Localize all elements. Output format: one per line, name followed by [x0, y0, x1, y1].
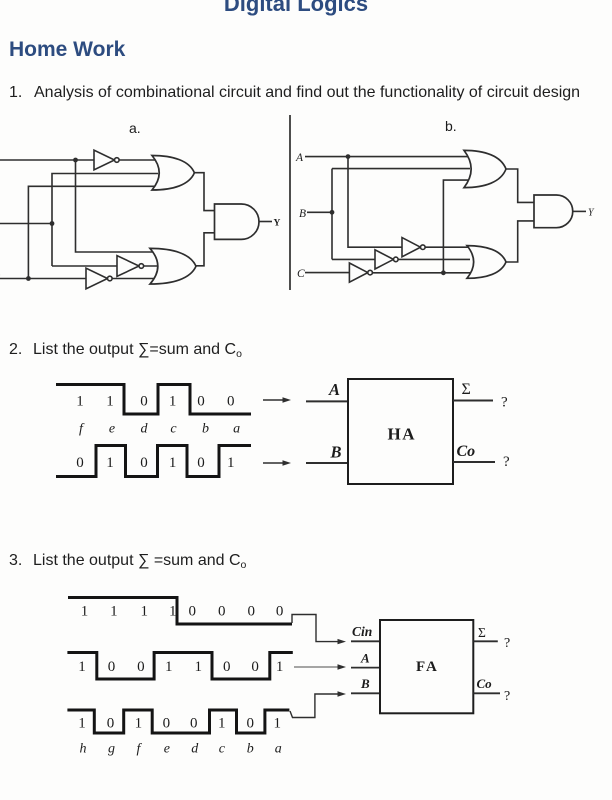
label ? (sum) [504, 636, 510, 651]
svg-text:A: A [328, 380, 340, 399]
inverter U1 (NOT A) [94, 150, 119, 170]
svg-text:0: 0 [197, 394, 205, 410]
svg-text:d: d [191, 742, 199, 757]
svg-text:1: 1 [194, 659, 202, 675]
svg-text:1: 1 [141, 604, 149, 620]
pin label A [360, 651, 370, 666]
svg-text:Co: Co [457, 443, 476, 460]
waveform B (0 1 0 1 0 1) [56, 446, 251, 477]
wire NOT-B output [398, 258, 470, 260]
svg-text:0: 0 [247, 604, 255, 620]
svg-text:1: 1 [227, 455, 235, 471]
arrow to HA input A [263, 397, 291, 402]
wire A down to inverter chain [348, 157, 404, 248]
wire B up branch to upper OR [52, 174, 158, 267]
svg-text:1: 1 [276, 659, 284, 675]
svg-text:0: 0 [189, 604, 197, 620]
wire FA input A [351, 667, 380, 669]
wire U10 to AND [506, 169, 535, 202]
wire C up branch to upper OR [28, 186, 158, 278]
svg-text:d: d [141, 422, 149, 437]
wire input C [305, 272, 351, 274]
svg-text:?: ? [503, 454, 510, 470]
label ? (sum) [501, 395, 508, 411]
wire Co output [473, 692, 500, 694]
svg-text:f: f [79, 422, 85, 437]
OR gate U11 (lower) [467, 246, 506, 279]
svg-text:?: ? [504, 689, 510, 704]
wire FA input Cin [351, 640, 380, 642]
waveform A (1 1 0 1 0 0) [56, 385, 251, 415]
label ? (Co) [503, 454, 510, 470]
wire A to lower OR [76, 160, 157, 252]
pin label Cin [352, 624, 372, 639]
svg-text:0: 0 [163, 716, 171, 732]
full adder FA [380, 620, 473, 713]
wire input B [0, 223, 52, 225]
svg-text:0: 0 [140, 394, 148, 410]
svg-text:Cin: Cin [352, 624, 372, 639]
wire B down branch to inverter [332, 258, 377, 260]
svg-text:f: f [136, 742, 142, 757]
svg-text:0: 0 [251, 659, 259, 675]
svg-text:1: 1 [81, 604, 89, 620]
wire NOT-C up branch to upper OR [443, 180, 468, 273]
wire NOT-C output [372, 272, 470, 274]
wire output Y [259, 221, 272, 223]
svg-text:1: 1 [106, 455, 114, 471]
junction B [330, 210, 335, 215]
inverter U9 (NOT A) [402, 238, 425, 257]
wire B up branch to upper OR [332, 168, 470, 170]
wire B down branch to inverter [52, 265, 119, 267]
waveform Cin bit values [81, 604, 284, 620]
svg-text:0: 0 [246, 716, 254, 732]
svg-text:0: 0 [108, 659, 116, 675]
svg-text:FA: FA [416, 659, 439, 675]
wire U11 to AND [506, 221, 535, 262]
wire input A [305, 156, 470, 158]
wire inverter1 output [119, 159, 158, 161]
svg-text:b: b [247, 742, 254, 757]
arrow to HA input B [263, 460, 291, 465]
svg-text:0: 0 [218, 604, 226, 620]
svg-text:1: 1 [169, 604, 177, 620]
pin label Co [477, 676, 493, 691]
pin label B [330, 443, 342, 462]
wire inverter3 output [112, 278, 162, 280]
inverter U2 (NOT B) [117, 256, 144, 277]
wire sum output [473, 640, 498, 642]
svg-text:0: 0 [227, 394, 235, 410]
svg-text:0: 0 [76, 455, 84, 471]
svg-text:a.: a. [129, 120, 141, 136]
wire U5 to AND [196, 233, 215, 266]
svg-text:1: 1 [76, 394, 84, 410]
OR gate U10 (upper) [464, 150, 506, 187]
waveform Cin (1 1 1 1 0 0 0 0) [68, 598, 292, 625]
wire sum output [453, 400, 493, 402]
svg-text:Y: Y [588, 208, 595, 219]
junction NOT-C [441, 270, 446, 275]
svg-text:b.: b. [445, 118, 457, 134]
pin label B [360, 676, 370, 691]
junction C [26, 276, 31, 281]
svg-text:C: C [297, 268, 305, 280]
pin label Co [457, 443, 476, 460]
wire input A [0, 159, 96, 161]
wire output Y [573, 210, 586, 212]
svg-text:1: 1 [165, 659, 173, 675]
svg-text:1: 1 [78, 716, 86, 732]
node C [297, 268, 305, 280]
svg-text:a: a [275, 742, 282, 757]
pin label sum [462, 381, 471, 398]
svg-text:c: c [219, 742, 226, 757]
connector waveform-B to FA [290, 691, 346, 717]
waveform A bit values [78, 659, 283, 675]
inverter U3 (NOT C) [86, 268, 112, 289]
svg-text:1: 1 [218, 716, 226, 732]
svg-text:A: A [295, 152, 304, 164]
svg-text:1: 1 [169, 455, 177, 471]
svg-text:e: e [164, 742, 170, 757]
svg-text:h: h [80, 742, 87, 757]
wire U4 to AND [194, 173, 215, 211]
svg-text:0: 0 [137, 659, 145, 675]
waveform B bit values [78, 716, 281, 732]
svg-text:HA: HA [388, 425, 417, 444]
svg-text:1: 1 [273, 716, 281, 732]
label ? (Co) [504, 689, 510, 704]
AND gate U12 [534, 195, 573, 228]
svg-text:g: g [108, 742, 115, 757]
AND gate U6 [215, 204, 259, 239]
svg-text:Co: Co [477, 676, 493, 691]
inverter U7 (NOT C) [349, 263, 372, 282]
node A [295, 152, 304, 164]
svg-text:B: B [299, 208, 306, 220]
OR gate U4 (upper) [152, 156, 194, 191]
connector waveform-A to FA [294, 664, 346, 669]
svg-text:1: 1 [110, 604, 118, 620]
pin label sum [478, 625, 486, 640]
svg-text:0: 0 [223, 659, 231, 675]
svg-text:B: B [330, 443, 342, 462]
svg-text:1: 1 [169, 394, 177, 410]
wire FA input B [351, 692, 380, 694]
wire input B [307, 211, 332, 213]
svg-text:A: A [360, 651, 370, 666]
svg-text:0: 0 [140, 455, 148, 471]
svg-text:b: b [202, 422, 209, 437]
svg-text:0: 0 [276, 604, 284, 620]
node B [299, 208, 306, 220]
svg-text:0: 0 [107, 716, 115, 732]
waveform B (1 0 1 0 0 1 0 1) [67, 710, 289, 733]
svg-text:a: a [233, 422, 240, 437]
pin label A [328, 380, 340, 399]
connector waveform-Cin to FA [292, 615, 346, 645]
waveform B bit values [76, 455, 234, 471]
svg-text:1: 1 [78, 659, 86, 675]
svg-text:1: 1 [106, 394, 114, 410]
wire NOT-A output [425, 246, 470, 248]
wire HA input A [306, 400, 348, 402]
junction B [50, 221, 55, 226]
junction A [73, 158, 78, 163]
half adder HA [348, 379, 453, 484]
svg-text:Σ: Σ [462, 381, 471, 398]
wire HA input B [306, 462, 348, 464]
label b. [445, 118, 457, 134]
junction A [346, 154, 351, 159]
svg-text:?: ? [501, 395, 508, 411]
wire B vertical [331, 169, 333, 260]
time labels f e d c b a [79, 422, 240, 437]
svg-text:Y: Y [274, 219, 281, 229]
svg-text:Σ: Σ [478, 625, 486, 640]
divider line [289, 115, 291, 290]
svg-text:1: 1 [135, 716, 143, 732]
svg-text:e: e [109, 422, 115, 437]
svg-text:0: 0 [197, 455, 205, 471]
waveform A (1 0 0 1 1 0 0 1) [67, 653, 292, 680]
wire inverter2 output [144, 265, 162, 267]
svg-text:c: c [170, 422, 177, 437]
node Y [588, 208, 595, 219]
wire input C [0, 278, 88, 280]
label a. [129, 120, 141, 136]
OR gate U5 (lower) [150, 248, 196, 284]
svg-text:0: 0 [190, 716, 198, 732]
svg-text:?: ? [504, 636, 510, 651]
inverter U8 (NOT B) [375, 250, 398, 269]
node C (clipped label) [0, 271, 1, 285]
waveform A bit values [76, 394, 234, 410]
time labels h g f e d c b a [80, 742, 282, 757]
svg-text:B: B [360, 676, 370, 691]
node Y [274, 219, 281, 229]
wire Co output [453, 461, 495, 463]
